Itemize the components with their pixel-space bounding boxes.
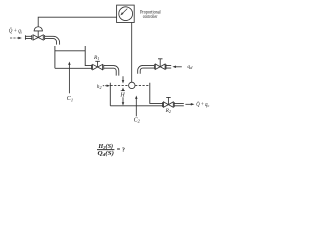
dimension H bar: upper arrow above level line	[122, 76, 124, 81]
formula H2(S)/Qd(S) = ?	[97, 143, 125, 157]
label: Proportional controller	[140, 10, 161, 20]
tank 1 (capacitance C1)	[55, 46, 92, 68]
label C2 with leader arrow	[135, 97, 137, 116]
label R2	[165, 108, 171, 114]
label h2 with dashed leader arrow	[97, 84, 102, 90]
float ball	[129, 82, 135, 88]
valve R1 stem	[95, 61, 100, 67]
wire: controller output down to float	[131, 23, 133, 83]
valve qd body	[155, 64, 165, 69]
pipe: outflow stub	[174, 103, 184, 105]
dimension H bar: lower double arrow to tank bottom	[122, 90, 124, 104]
label H bar	[119, 92, 125, 98]
outflow arrow	[185, 103, 192, 105]
pipe: inlet right segment with elbow into tank 1	[45, 36, 60, 44]
pipe: disturbance inlet right stub	[166, 65, 171, 68]
svg-text:H2(S): H2(S)	[97, 143, 113, 150]
valve qd flanges	[154, 64, 166, 69]
svg-text:C2: C2	[134, 117, 141, 123]
dashed steady-state level line	[111, 85, 150, 87]
control valve V1 flanges	[32, 35, 45, 40]
svg-text:R1: R1	[93, 55, 99, 61]
pipe: inlet left segment	[25, 35, 31, 40]
tank 2 (capacitance C2)	[110, 83, 163, 106]
svg-text:H: H	[119, 92, 125, 98]
proportional controller U1 box	[117, 5, 135, 22]
svg-text:Qd(S): Qd(S)	[98, 150, 115, 157]
svg-text:Q̄ + qo: Q̄ + qo	[196, 101, 210, 108]
label: inflow Q+qi	[9, 28, 23, 35]
control valve V1 stem	[37, 31, 39, 38]
disturbance arrow	[175, 66, 182, 68]
pipe: tank1 outlet elbow down into tank 2	[104, 66, 119, 76]
svg-text:R2: R2	[165, 108, 171, 114]
valve qd stem	[158, 59, 163, 67]
svg-text:controller: controller	[143, 15, 158, 20]
control valve V1 body (bowtie)	[33, 35, 43, 40]
svg-text:Q̄ + qi: Q̄ + qi	[9, 28, 23, 35]
controller gauge circle	[119, 7, 133, 21]
label outflow Q+qo	[196, 101, 210, 108]
controller gauge needle	[123, 9, 128, 14]
valve R2 body	[164, 102, 174, 107]
svg-text:C1: C1	[67, 96, 73, 102]
label C1 with leader arrow	[68, 63, 70, 93]
wire: actuator-to-controller signal line	[38, 17, 116, 26]
valve R1 flanges	[92, 65, 104, 70]
valve R2 flanges	[163, 102, 175, 107]
label R1	[93, 55, 99, 61]
inflow dashed arrow	[10, 37, 20, 39]
valve R2 stem	[166, 97, 171, 104]
pipe: disturbance elbow down into tank 2	[138, 65, 155, 73]
label qd	[187, 64, 193, 70]
valve R1 body	[93, 64, 103, 69]
svg-text:h2: h2	[97, 84, 102, 90]
svg-text:= ?: = ?	[117, 147, 125, 154]
control valve V1 diaphragm dome	[34, 27, 43, 31]
